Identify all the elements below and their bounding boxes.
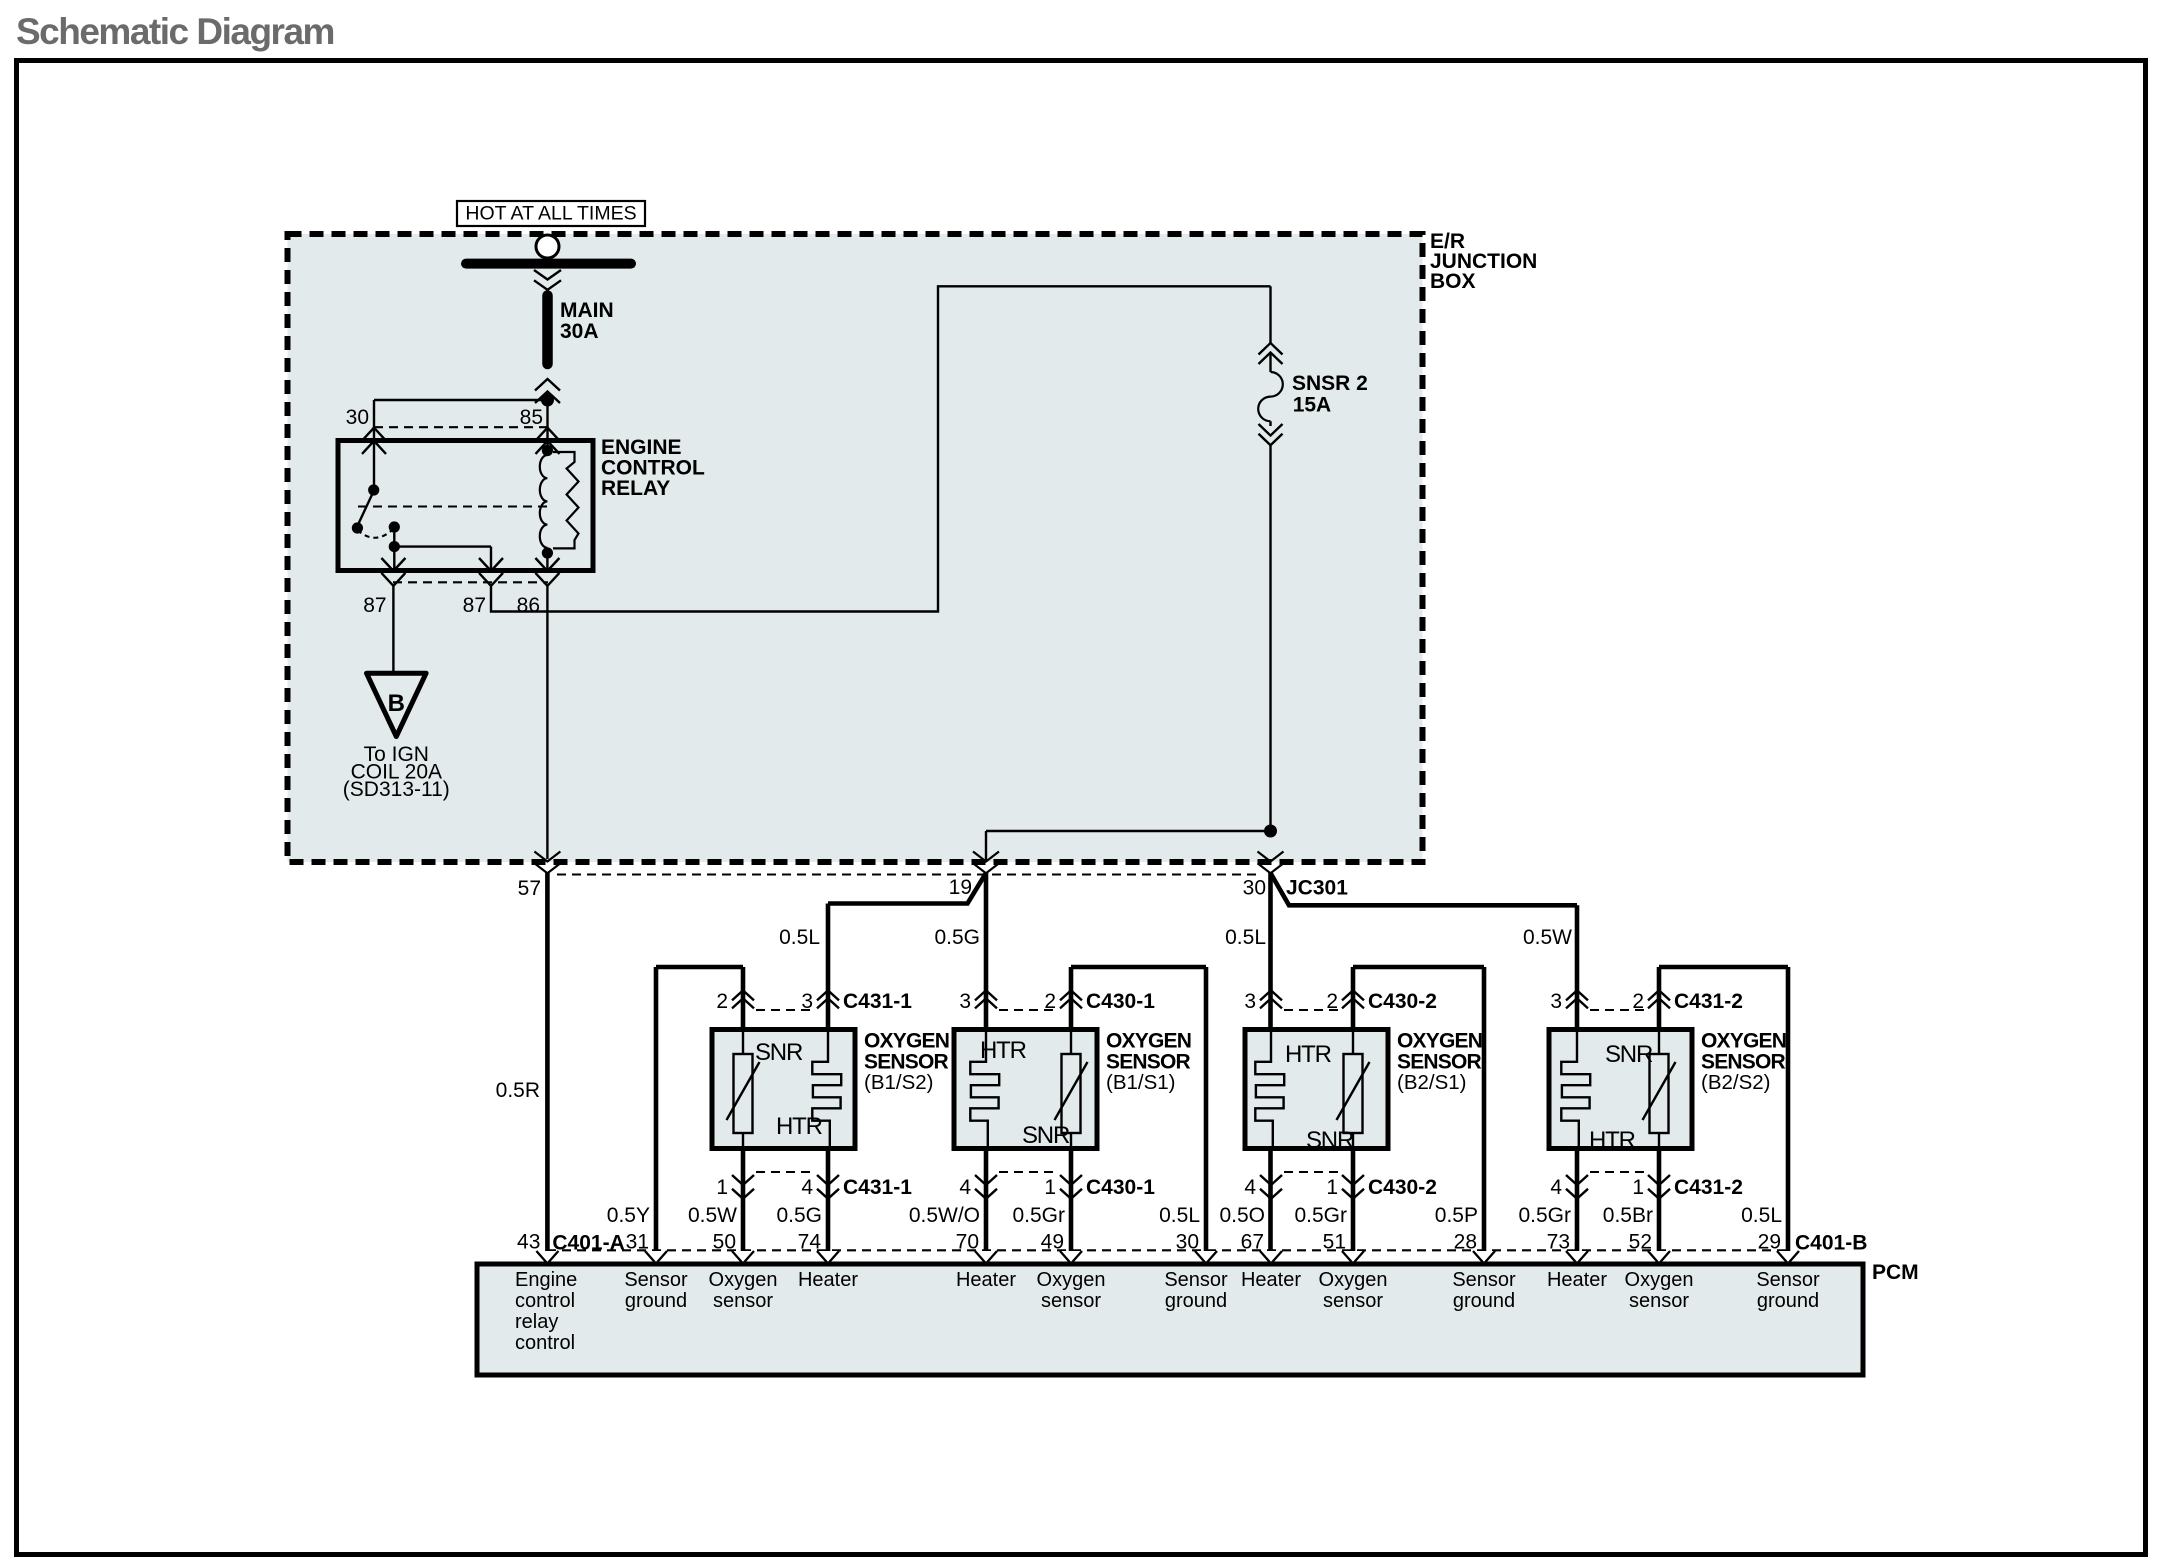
svg-text:(B1/S1): (B1/S1): [1106, 1071, 1176, 1094]
svg-text:0.5P: 0.5P: [1435, 1204, 1478, 1227]
svg-text:0.5Y: 0.5Y: [607, 1204, 650, 1227]
svg-text:Oxygen: Oxygen: [1319, 1269, 1388, 1291]
svg-text:Heater: Heater: [1241, 1269, 1301, 1291]
svg-text:1: 1: [1326, 1176, 1338, 1199]
svg-text:0.5W: 0.5W: [1523, 926, 1572, 949]
svg-text:HTR: HTR: [980, 1037, 1027, 1064]
svg-text:sensor: sensor: [1041, 1290, 1101, 1312]
svg-text:C430-1: C430-1: [1086, 1176, 1155, 1199]
svg-text:HTR: HTR: [1589, 1127, 1636, 1154]
svg-text:SNR: SNR: [1605, 1041, 1653, 1068]
svg-text:HTR: HTR: [1285, 1041, 1332, 1068]
svg-text:1: 1: [1632, 1176, 1644, 1199]
svg-text:SNR: SNR: [1022, 1122, 1070, 1149]
svg-text:BOX: BOX: [1430, 270, 1476, 293]
svg-text:sensor: sensor: [713, 1290, 773, 1312]
svg-text:C431-1: C431-1: [843, 990, 912, 1013]
svg-text:C430-2: C430-2: [1368, 990, 1437, 1013]
svg-text:4: 4: [1550, 1176, 1562, 1199]
svg-text:HOT AT ALL TIMES: HOT AT ALL TIMES: [465, 203, 636, 225]
svg-text:OXYGEN: OXYGEN: [864, 1030, 949, 1053]
svg-text:ground: ground: [1757, 1290, 1819, 1312]
svg-text:C431-1: C431-1: [843, 1176, 912, 1199]
svg-text:0.5W: 0.5W: [688, 1204, 737, 1227]
svg-text:C431-2: C431-2: [1674, 990, 1743, 1013]
svg-text:C401-B: C401-B: [1795, 1232, 1867, 1255]
svg-text:30A: 30A: [560, 320, 599, 343]
svg-text:4: 4: [1244, 1176, 1256, 1199]
svg-text:SNSR 2: SNSR 2: [1292, 372, 1368, 395]
svg-text:sensor: sensor: [1323, 1290, 1383, 1312]
svg-text:30: 30: [1243, 877, 1266, 900]
svg-text:43: 43: [517, 1231, 540, 1254]
svg-text:0.5L: 0.5L: [1225, 926, 1266, 949]
svg-text:control: control: [515, 1332, 575, 1354]
svg-text:OXYGEN: OXYGEN: [1701, 1030, 1786, 1053]
svg-text:0.5L: 0.5L: [1159, 1204, 1200, 1227]
svg-text:(B2/S2): (B2/S2): [1701, 1071, 1771, 1094]
svg-text:0.5Gr: 0.5Gr: [1012, 1204, 1065, 1227]
svg-text:MAIN: MAIN: [560, 299, 614, 322]
svg-text:Sensor: Sensor: [1756, 1269, 1820, 1291]
svg-text:85: 85: [520, 406, 543, 429]
svg-text:Oxygen: Oxygen: [1625, 1269, 1694, 1291]
svg-text:sensor: sensor: [1629, 1290, 1689, 1312]
svg-text:Heater: Heater: [798, 1269, 858, 1291]
svg-text:(B1/S2): (B1/S2): [864, 1071, 934, 1094]
svg-text:0.5L: 0.5L: [779, 926, 820, 949]
svg-text:ground: ground: [1453, 1290, 1515, 1312]
svg-text:control: control: [515, 1290, 575, 1312]
svg-text:RELAY: RELAY: [601, 477, 670, 500]
svg-text:1: 1: [716, 1176, 728, 1199]
svg-text:SNR: SNR: [1306, 1127, 1354, 1154]
svg-text:B: B: [388, 690, 405, 717]
svg-text:OXYGEN: OXYGEN: [1397, 1030, 1482, 1053]
svg-text:0.5Br: 0.5Br: [1603, 1204, 1653, 1227]
svg-text:PCM: PCM: [1872, 1261, 1919, 1284]
svg-text:C431-2: C431-2: [1674, 1176, 1743, 1199]
svg-text:Heater: Heater: [1547, 1269, 1607, 1291]
svg-text:3: 3: [1550, 990, 1562, 1013]
svg-text:87: 87: [363, 594, 386, 617]
svg-text:0.5Gr: 0.5Gr: [1518, 1204, 1571, 1227]
svg-text:Oxygen: Oxygen: [709, 1269, 778, 1291]
svg-text:3: 3: [801, 990, 813, 1013]
svg-text:87: 87: [463, 594, 486, 617]
svg-text:Sensor: Sensor: [1452, 1269, 1516, 1291]
svg-text:2: 2: [1326, 990, 1338, 1013]
svg-text:HTR: HTR: [776, 1113, 823, 1140]
svg-text:19: 19: [949, 876, 972, 899]
svg-text:0.5W/O: 0.5W/O: [909, 1204, 980, 1227]
svg-text:4: 4: [801, 1176, 813, 1199]
svg-text:30: 30: [346, 406, 369, 429]
svg-text:C430-1: C430-1: [1086, 990, 1155, 1013]
svg-text:Heater: Heater: [956, 1269, 1016, 1291]
svg-text:15A: 15A: [1293, 394, 1332, 417]
svg-text:ground: ground: [625, 1290, 687, 1312]
svg-text:SNR: SNR: [755, 1039, 803, 1066]
svg-text:2: 2: [1632, 990, 1644, 1013]
svg-text:0.5G: 0.5G: [934, 926, 980, 949]
svg-text:0.5R: 0.5R: [496, 1079, 540, 1102]
svg-text:86: 86: [517, 594, 540, 617]
svg-text:1: 1: [1044, 1176, 1056, 1199]
svg-text:relay: relay: [515, 1311, 558, 1333]
svg-text:0.5O: 0.5O: [1219, 1204, 1265, 1227]
svg-text:ground: ground: [1165, 1290, 1227, 1312]
svg-text:57: 57: [518, 877, 541, 900]
svg-text:2: 2: [716, 990, 728, 1013]
svg-text:3: 3: [1244, 990, 1256, 1013]
svg-text:C430-2: C430-2: [1368, 1176, 1437, 1199]
svg-text:JC301: JC301: [1286, 877, 1348, 900]
svg-text:Engine: Engine: [515, 1269, 577, 1291]
svg-text:0.5L: 0.5L: [1741, 1204, 1782, 1227]
svg-text:Schematic Diagram: Schematic Diagram: [16, 11, 334, 52]
svg-text:0.5G: 0.5G: [776, 1204, 822, 1227]
svg-text:2: 2: [1044, 990, 1056, 1013]
svg-text:3: 3: [959, 990, 971, 1013]
svg-text:Sensor: Sensor: [624, 1269, 688, 1291]
svg-text:Sensor: Sensor: [1164, 1269, 1228, 1291]
svg-text:(B2/S1): (B2/S1): [1397, 1071, 1467, 1094]
svg-text:0.5Gr: 0.5Gr: [1294, 1204, 1347, 1227]
svg-text:4: 4: [959, 1176, 971, 1199]
svg-text:(SD313-11): (SD313-11): [343, 778, 450, 801]
svg-text:OXYGEN: OXYGEN: [1106, 1030, 1191, 1053]
svg-text:Oxygen: Oxygen: [1037, 1269, 1106, 1291]
